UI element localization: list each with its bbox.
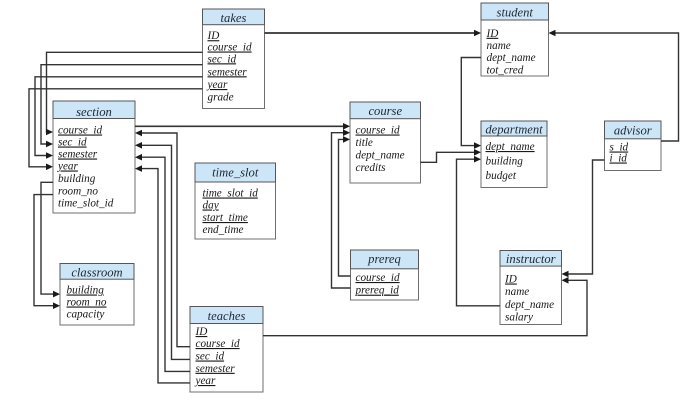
- svg-text:ID: ID: [486, 28, 499, 40]
- wire prereq.course_id to course.course_id: [339, 136, 351, 276]
- svg-text:instructor: instructor: [506, 252, 556, 266]
- wire teaches.ID to instructor.ID: [263, 277, 587, 336]
- table advisor: [605, 121, 662, 171]
- wire takes.ID to student.ID: [265, 30, 482, 37]
- svg-text:title: title: [356, 137, 373, 149]
- wire prereq.prereq_id to course.course_id: [332, 129, 351, 288]
- svg-text:takes: takes: [221, 11, 247, 25]
- svg-text:section: section: [76, 105, 112, 119]
- wire section.building to classroom.building: [41, 182, 60, 297]
- wire takes.sec_id to section.sec_id: [41, 65, 203, 148]
- wire advisor.s_id to student.ID: [549, 30, 679, 141]
- wire instructor.dept_name to department.dept_name: [457, 156, 501, 306]
- svg-text:semester: semester: [208, 66, 248, 78]
- wire teaches.course_id to section.course_id: [135, 130, 190, 347]
- svg-text:sec_id: sec_id: [196, 351, 225, 363]
- svg-text:grade: grade: [208, 92, 234, 104]
- wire course.dept_name to department.dept_name: [421, 149, 482, 162]
- svg-text:building: building: [58, 173, 96, 185]
- wire takes.semester to section.semester: [35, 77, 203, 159]
- svg-text:time_slot: time_slot: [212, 166, 259, 180]
- svg-text:name: name: [505, 286, 529, 298]
- wire takes.year to section.year: [29, 89, 203, 170]
- table course: [350, 102, 421, 183]
- svg-text:prereq_id: prereq_id: [355, 285, 400, 297]
- svg-text:course_id: course_id: [196, 338, 241, 350]
- svg-text:start_time: start_time: [203, 212, 248, 224]
- svg-text:classroom: classroom: [71, 266, 122, 280]
- wire teaches.semester to section.semester: [135, 154, 190, 372]
- svg-text:budget: budget: [486, 170, 517, 182]
- svg-text:course_id: course_id: [208, 42, 253, 54]
- svg-text:capacity: capacity: [67, 309, 105, 321]
- svg-text:end_time: end_time: [203, 224, 244, 236]
- svg-text:sec_id: sec_id: [208, 53, 237, 65]
- svg-text:room_no: room_no: [67, 297, 107, 309]
- svg-text:ID: ID: [207, 30, 220, 42]
- svg-text:prereq: prereq: [367, 252, 401, 266]
- svg-text:year: year: [207, 79, 229, 91]
- table takes: [203, 9, 265, 109]
- svg-text:year: year: [195, 375, 217, 387]
- svg-text:semester: semester: [196, 363, 236, 375]
- svg-text:day: day: [203, 200, 219, 212]
- svg-text:student: student: [497, 6, 534, 20]
- table section: [53, 101, 135, 213]
- svg-text:dept_name: dept_name: [487, 52, 536, 64]
- svg-text:course_id: course_id: [356, 272, 401, 284]
- wire section.room_no to classroom.room_no: [34, 195, 60, 309]
- svg-text:salary: salary: [505, 312, 533, 324]
- table classroom: [60, 264, 134, 326]
- svg-text:dept_name: dept_name: [356, 150, 405, 162]
- table department: [481, 121, 547, 188]
- svg-text:ID: ID: [504, 274, 517, 286]
- svg-text:time_slot_id: time_slot_id: [58, 198, 114, 210]
- svg-text:course: course: [368, 104, 402, 118]
- svg-text:semester: semester: [58, 149, 98, 161]
- svg-text:department: department: [485, 123, 543, 137]
- table instructor: [500, 251, 562, 325]
- wire takes.course_id to section.course_id: [46, 52, 203, 135]
- wire advisor.i_id to instructor.ID: [562, 160, 605, 277]
- table time_slot: [195, 163, 276, 239]
- svg-text:sec_id: sec_id: [58, 137, 87, 149]
- svg-text:course_id: course_id: [58, 125, 103, 137]
- svg-text:dept_name: dept_name: [505, 299, 554, 311]
- svg-text:dept_name: dept_name: [486, 141, 535, 153]
- svg-text:name: name: [487, 40, 511, 52]
- svg-text:ID: ID: [195, 326, 208, 338]
- svg-text:year: year: [57, 161, 79, 173]
- svg-text:tot_cred: tot_cred: [487, 64, 524, 76]
- table teaches: [190, 307, 263, 393]
- wire teaches.year to section.year: [135, 165, 190, 383]
- table student: [481, 3, 549, 76]
- svg-text:course_id: course_id: [356, 125, 401, 137]
- table prereq: [351, 250, 419, 300]
- svg-text:i_id: i_id: [610, 153, 628, 165]
- svg-text:time_slot_id: time_slot_id: [203, 188, 259, 200]
- wire teaches.sec_id to section.sec_id: [135, 142, 190, 359]
- svg-text:room_no: room_no: [58, 186, 98, 198]
- svg-text:credits: credits: [356, 162, 387, 174]
- wire student.dept_name to department.dept_name: [461, 58, 481, 149]
- svg-text:building: building: [67, 285, 105, 297]
- svg-text:teaches: teaches: [208, 309, 246, 323]
- svg-text:advisor: advisor: [614, 124, 652, 138]
- wire section.course_id to course.course_id: [135, 123, 350, 130]
- svg-text:building: building: [486, 156, 524, 168]
